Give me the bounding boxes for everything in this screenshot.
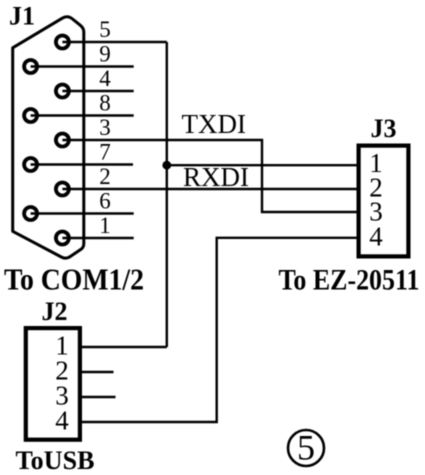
svg-text:8: 8 <box>99 91 111 116</box>
J1 pin 9 circle <box>24 60 37 73</box>
wire J1 pin7 stub <box>31 163 133 165</box>
wire junction to J3 pin1 <box>167 164 359 166</box>
wire J1 pin1 stub <box>62 237 133 239</box>
wire J1 pin8 stub <box>31 114 134 116</box>
wire vertical net pin5 down to J2 pin1 row <box>166 42 168 347</box>
svg-text:J1: J1 <box>9 2 35 31</box>
connector J2 box <box>26 328 80 440</box>
junction dot on net at RXDI row <box>162 161 171 170</box>
sheet number circle 5 <box>288 430 324 466</box>
svg-text:RXDI: RXDI <box>183 162 249 192</box>
wire J2 pin1 to vertical net <box>82 346 167 348</box>
J1 pin 4 circle <box>56 85 69 98</box>
svg-text:5: 5 <box>99 17 111 42</box>
connector J1 DB9 body outline <box>13 17 84 258</box>
svg-text:2: 2 <box>99 164 111 189</box>
J1 pin 8 circle <box>24 109 37 122</box>
wire J2 pin2 stub <box>82 371 114 373</box>
svg-text:1: 1 <box>99 213 111 238</box>
svg-text:J2: J2 <box>42 297 68 326</box>
wire J1 pin9 stub <box>31 65 134 67</box>
J1 pin 6 circle <box>24 207 37 220</box>
svg-text:To EZ-20511: To EZ-20511 <box>279 264 420 297</box>
svg-text:To COM1/2: To COM1/2 <box>4 262 144 297</box>
J1 pin 3 circle <box>56 134 69 147</box>
svg-text:4: 4 <box>99 66 111 91</box>
J1 pin 5 circle <box>56 36 69 49</box>
svg-text:ToUSB: ToUSB <box>16 446 95 475</box>
J1 pin 7 circle <box>24 158 37 171</box>
wire J2 pin3 stub <box>82 396 116 398</box>
svg-text:J3: J3 <box>371 114 397 143</box>
wire J3 pin4 to J2 pin4 <box>82 238 359 422</box>
svg-text:5: 5 <box>297 428 315 468</box>
svg-text:9: 9 <box>99 42 111 67</box>
svg-text:7: 7 <box>99 140 111 165</box>
J1 pin 2 circle <box>56 183 69 196</box>
wire TXDI net J1 pin3 to J3 pin3 <box>62 140 359 212</box>
svg-text:4: 4 <box>369 222 383 252</box>
wire J1 pin5 to vertical net <box>62 41 166 43</box>
svg-text:6: 6 <box>99 189 111 214</box>
wire J1 pin6 stub <box>31 212 134 214</box>
wire J1 pin4 stub <box>62 90 133 92</box>
svg-text:4: 4 <box>55 406 69 436</box>
J1 pin 1 circle <box>56 232 69 245</box>
svg-text:TXDI: TXDI <box>182 109 246 139</box>
wire RXDI net J1 pin2 to J3 pin2 <box>62 188 359 190</box>
svg-text:3: 3 <box>99 115 111 140</box>
connector J3 box <box>359 146 409 257</box>
